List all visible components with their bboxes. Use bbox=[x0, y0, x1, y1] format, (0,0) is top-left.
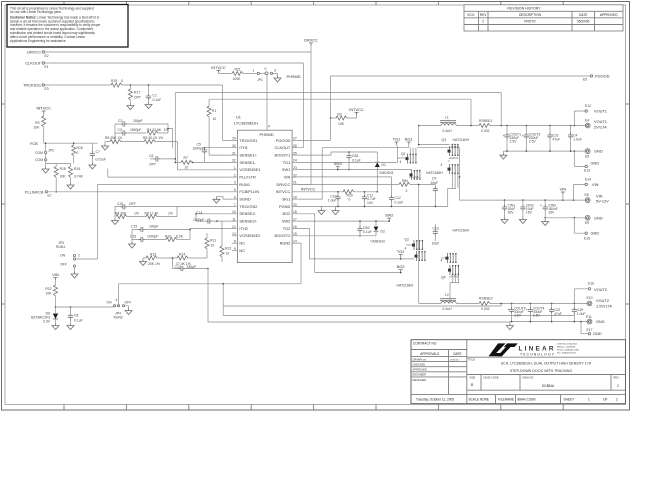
net flag INTVCC left bbox=[36, 106, 51, 114]
transistor Q1 bbox=[397, 148, 420, 180]
terminal E14 VIN bbox=[574, 178, 599, 200]
svg-text:19: 19 bbox=[293, 195, 297, 199]
svg-text:21: 21 bbox=[293, 181, 297, 185]
svg-text:SENSE2+: SENSE2+ bbox=[239, 219, 257, 224]
svg-text:6: 6 bbox=[234, 195, 236, 199]
resistor R5 bbox=[105, 136, 144, 143]
U1 pin 15 BOOST2 bbox=[292, 235, 298, 237]
svg-text:1: 1 bbox=[234, 166, 236, 170]
svg-text:CAGE CODE: CAGE CODE bbox=[483, 375, 499, 379]
svg-text:E10: E10 bbox=[587, 296, 593, 300]
jumper JP1 bbox=[253, 67, 278, 82]
svg-text:0: 0 bbox=[349, 198, 351, 202]
wire VOUT1 rail bbox=[419, 125, 586, 127]
svg-text:10: 10 bbox=[226, 252, 230, 256]
U1 pin 31 SENSE1+ bbox=[232, 154, 238, 156]
ground at R5 left bbox=[102, 142, 109, 150]
resistor R15 bbox=[111, 79, 123, 87]
svg-text:1%: 1% bbox=[168, 212, 173, 216]
svg-text:TG2: TG2 bbox=[397, 249, 405, 254]
ground at JP1 bbox=[274, 76, 281, 82]
terminal E2 DRVCC bbox=[27, 50, 49, 59]
inductor L2 bbox=[440, 293, 456, 311]
svg-text:C2: C2 bbox=[118, 119, 122, 123]
pin 4 stub top bbox=[266, 75, 268, 130]
svg-text:Q4: Q4 bbox=[441, 276, 446, 280]
ground below C7 bbox=[89, 163, 96, 169]
svg-text:C9: C9 bbox=[432, 177, 436, 181]
svg-text:2: 2 bbox=[617, 384, 619, 388]
svg-text:ITH1: ITH1 bbox=[239, 145, 247, 150]
svg-text:DC884A: DC884A bbox=[542, 384, 555, 388]
svg-text:12: 12 bbox=[232, 225, 236, 229]
svg-text:01/31/05: 01/31/05 bbox=[450, 359, 459, 361]
svg-text:CHECKED: CHECKED bbox=[413, 362, 426, 366]
wire SW node ch2 bbox=[418, 184, 420, 303]
svg-text:0.4uH: 0.4uH bbox=[443, 129, 453, 133]
svg-text:E9: E9 bbox=[585, 221, 589, 225]
svg-text:CLKOUT: CLKOUT bbox=[275, 145, 291, 150]
svg-text:OFF: OFF bbox=[60, 263, 67, 267]
svg-text:R19: R19 bbox=[74, 167, 80, 171]
svg-text:PHSMD: PHSMD bbox=[260, 132, 274, 137]
svg-text:REV: REV bbox=[480, 13, 487, 17]
svg-text:47uF: 47uF bbox=[553, 138, 561, 142]
svg-text:E3: E3 bbox=[45, 87, 49, 91]
svg-text:Q1: Q1 bbox=[401, 152, 406, 156]
svg-text:VIN: VIN bbox=[560, 187, 567, 192]
resistor R11 bbox=[205, 233, 216, 258]
svg-text:3: 3 bbox=[274, 69, 276, 73]
U1 pin INTVCC bbox=[292, 191, 298, 193]
svg-text:R16: R16 bbox=[77, 146, 83, 150]
svg-text:SHEET: SHEET bbox=[564, 398, 575, 402]
wire DRVCC net bbox=[45, 44, 312, 52]
svg-text:JP2: JP2 bbox=[48, 149, 54, 153]
svg-text:R8 20K: R8 20K bbox=[115, 212, 127, 216]
svg-text:RUN1: RUN1 bbox=[239, 182, 250, 187]
svg-text:150pF: 150pF bbox=[133, 119, 143, 123]
resistor R18 bbox=[54, 167, 66, 193]
svg-text:+: + bbox=[540, 203, 542, 207]
net flag SW2 bbox=[385, 213, 393, 222]
svg-text:+: + bbox=[507, 308, 509, 312]
wire VIN gnd rail bbox=[545, 217, 586, 219]
svg-text:20: 20 bbox=[293, 203, 297, 207]
wire VOUT2 rail bbox=[419, 302, 588, 304]
svg-text:1: 1 bbox=[253, 69, 255, 73]
svg-text:R17: R17 bbox=[134, 91, 140, 95]
svg-text:C15: C15 bbox=[131, 225, 137, 229]
svg-text:0.1uF: 0.1uF bbox=[153, 98, 162, 102]
svg-text:SENSE1-: SENSE1- bbox=[239, 160, 256, 165]
wire comp network verticals bbox=[115, 124, 232, 170]
svg-text:DRVCC: DRVCC bbox=[304, 38, 318, 43]
resistor RSNSE1 bbox=[479, 119, 493, 133]
svg-text:05/20/05: 05/20/05 bbox=[577, 19, 590, 23]
svg-text:INTVCC: INTVCC bbox=[276, 189, 291, 194]
svg-text:10: 10 bbox=[185, 166, 189, 170]
svg-text:SW2: SW2 bbox=[282, 219, 290, 224]
ground SGND bbox=[213, 197, 220, 203]
U1 pin 23 SW1 bbox=[292, 169, 298, 171]
svg-text:GND: GND bbox=[596, 319, 605, 324]
title block bbox=[411, 340, 626, 404]
svg-text:INTVCC: INTVCC bbox=[349, 107, 364, 112]
capacitor COUT3 bbox=[522, 126, 541, 152]
svg-text:ON: ON bbox=[107, 301, 113, 305]
svg-text:1000pF: 1000pF bbox=[147, 235, 159, 239]
svg-text:3.74K: 3.74K bbox=[74, 175, 84, 179]
U1 pin 32 SENSE1- bbox=[232, 161, 238, 163]
wire FCB node bbox=[44, 143, 98, 152]
jumper JP2 bbox=[35, 149, 54, 168]
U1 pin 25 BOOST1 bbox=[292, 154, 298, 156]
svg-text:TG2: TG2 bbox=[283, 226, 291, 231]
svg-text:GND: GND bbox=[594, 149, 603, 154]
svg-text:0.002: 0.002 bbox=[481, 129, 490, 133]
svg-text:+: + bbox=[526, 308, 528, 312]
svg-text:100K: 100K bbox=[233, 77, 242, 81]
svg-text:VOUT1: VOUT1 bbox=[594, 119, 607, 124]
svg-text:JP1: JP1 bbox=[257, 78, 263, 82]
capacitor C1 bbox=[146, 84, 161, 102]
svg-text:1500pF: 1500pF bbox=[130, 128, 142, 132]
svg-text:DATE: DATE bbox=[453, 352, 461, 356]
svg-text:16V: 16V bbox=[526, 211, 533, 215]
U1 pin 9 NC bbox=[232, 250, 238, 252]
svg-text:0.1uF: 0.1uF bbox=[352, 159, 361, 163]
svg-text:Phone: (408)432-1900: Phone: (408)432-1900 bbox=[557, 350, 580, 352]
wire PLLINFCB to pin5 bbox=[48, 191, 232, 193]
wire RUN2 node bbox=[56, 306, 114, 307]
svg-text:TECHNOLOGY: TECHNOLOGY bbox=[520, 352, 555, 356]
svg-text:E7: E7 bbox=[48, 194, 52, 198]
ground below R17 bbox=[127, 104, 134, 110]
svg-text:Applications Engineering for a: Applications Engineering for assistance. bbox=[10, 39, 67, 43]
wire BOOST1 net bbox=[298, 152, 378, 155]
resistor R22 bbox=[45, 280, 57, 307]
wire VOUT1 gnd rail bbox=[503, 150, 586, 152]
svg-text:FILENAME: FILENAME bbox=[498, 398, 514, 402]
svg-text:R1: R1 bbox=[212, 109, 216, 113]
wire INTVCC row bbox=[298, 191, 343, 193]
svg-text:Tuesday, October 11, 2005: Tuesday, October 11, 2005 bbox=[416, 398, 454, 402]
wire CLKOUT net bbox=[45, 63, 304, 148]
svg-text:L2: L2 bbox=[445, 293, 449, 297]
capacitor C17 bbox=[173, 258, 209, 271]
resistor R14 bbox=[176, 253, 207, 266]
svg-text:1000pF: 1000pF bbox=[193, 218, 205, 222]
wire PGND rail bbox=[298, 205, 448, 207]
diode D2 CMDSH3 bbox=[371, 220, 385, 243]
svg-text:10uF: 10uF bbox=[432, 242, 440, 246]
wire SW2 net bbox=[298, 220, 390, 222]
svg-text:47uF: 47uF bbox=[554, 312, 562, 316]
resistor R10 bbox=[165, 235, 190, 242]
svg-text:2: 2 bbox=[616, 398, 618, 402]
svg-text:B: B bbox=[471, 383, 473, 387]
svg-text:E2: E2 bbox=[45, 54, 49, 58]
svg-text:+S+P+S: +S+P+S bbox=[449, 156, 459, 160]
svg-text:VIN: VIN bbox=[596, 193, 603, 198]
net flag VIN rail bbox=[560, 187, 567, 201]
capacitor C13 bbox=[432, 224, 440, 246]
terminal E15 GND bbox=[574, 218, 599, 241]
svg-text:+: + bbox=[503, 134, 505, 138]
net flag BG2 bbox=[397, 264, 405, 274]
svg-text:0.01uF: 0.01uF bbox=[96, 158, 107, 162]
capacitor C4 bbox=[568, 126, 582, 152]
svg-text:HAT2168H: HAT2168H bbox=[426, 171, 443, 175]
svg-text:SIZE: SIZE bbox=[470, 375, 476, 379]
svg-text:RUN1: RUN1 bbox=[56, 245, 65, 249]
capacitor C14 bbox=[193, 211, 232, 224]
ground CIN2 bbox=[519, 218, 526, 224]
ground CIN3 bbox=[542, 218, 549, 226]
ground VOUT2 rail bbox=[506, 322, 513, 330]
U1 pin 1 VOSENSE1 bbox=[232, 169, 238, 171]
wire TG2 net bbox=[298, 228, 414, 259]
wire SW node ch1 bbox=[419, 126, 450, 145]
net flag BG1 bbox=[405, 137, 413, 148]
svg-text:2.5V: 2.5V bbox=[529, 140, 537, 144]
ground below JP3 bbox=[71, 272, 78, 278]
resistor R12 bbox=[220, 221, 231, 262]
ground PGND arrow 2 bbox=[332, 206, 339, 214]
ground below JP2 bbox=[42, 167, 49, 173]
svg-text:BG1: BG1 bbox=[405, 137, 413, 142]
svg-text:STEP-DOWN DC/DC WITH TRACKING: STEP-DOWN DC/DC WITH TRACKING bbox=[510, 369, 573, 373]
svg-text:PROTO: PROTO bbox=[524, 19, 536, 23]
svg-text:16V: 16V bbox=[548, 211, 555, 215]
U1 pin 11 SENSE2+ bbox=[232, 220, 238, 222]
svg-text:26: 26 bbox=[293, 144, 297, 148]
wire sense1 kelvin risers bbox=[175, 93, 209, 163]
net flag DRVCC top bbox=[304, 38, 318, 46]
svg-text:10K: 10K bbox=[60, 175, 67, 179]
ground below R8 left bbox=[112, 217, 119, 225]
svg-text:5V-12V: 5V-12V bbox=[596, 199, 609, 204]
U1 pin 20 PGND bbox=[292, 206, 298, 208]
svg-text:ON: ON bbox=[60, 254, 66, 258]
svg-text:C1: C1 bbox=[153, 94, 157, 98]
svg-text:0: 0 bbox=[121, 79, 123, 83]
svg-text:R15: R15 bbox=[111, 79, 117, 83]
U1 pin 14 RUN2 bbox=[292, 242, 298, 244]
svg-text:APPROVED: APPROVED bbox=[600, 13, 618, 17]
svg-text:HAT2160H: HAT2160H bbox=[453, 138, 470, 142]
svg-text:PLLFLTR: PLLFLTR bbox=[239, 175, 256, 180]
svg-text:COM: COM bbox=[35, 158, 43, 162]
svg-text:C3: C3 bbox=[118, 128, 122, 132]
inductor L1 bbox=[440, 115, 456, 133]
terminal E16 VOUT2 bbox=[574, 282, 607, 304]
wire RUN1 from JP3 bbox=[76, 184, 232, 259]
U1 pin 7 TRCKSS2 bbox=[232, 206, 238, 208]
svg-text:0.1uF: 0.1uF bbox=[74, 319, 83, 323]
svg-text:RSNSE1: RSNSE1 bbox=[479, 119, 493, 123]
svg-text:PLLINFCB: PLLINFCB bbox=[25, 189, 44, 194]
resistor R17 bbox=[128, 84, 141, 103]
svg-text:VOSENSE2: VOSENSE2 bbox=[239, 233, 260, 238]
ground below R19 bbox=[67, 183, 74, 189]
revision history table bbox=[464, 5, 623, 31]
terminal E11 GND bbox=[586, 315, 605, 324]
capacitor C10 bbox=[328, 191, 341, 206]
svg-text:VOUT1: VOUT1 bbox=[594, 108, 607, 113]
terminal E6 GND bbox=[585, 149, 603, 159]
svg-text:24: 24 bbox=[293, 159, 297, 163]
svg-text:OF: OF bbox=[603, 398, 607, 402]
svg-text:16: 16 bbox=[293, 225, 297, 229]
U1 pin 22 VIN bbox=[292, 176, 298, 178]
svg-text:PGOOD: PGOOD bbox=[276, 138, 291, 143]
resistor R7 bbox=[175, 156, 232, 170]
capacitor CIN3 bbox=[540, 200, 558, 219]
svg-text:10uF: 10uF bbox=[431, 181, 439, 185]
svg-text:Milpitas, CA 95035: Milpitas, CA 95035 bbox=[557, 346, 576, 349]
op IC U1 LTC3828EUH bbox=[232, 75, 298, 263]
capacitor CIN2 bbox=[520, 200, 533, 217]
svg-text:10V: 10V bbox=[367, 201, 374, 205]
svg-text:2: 2 bbox=[482, 19, 484, 23]
svg-text:10: 10 bbox=[232, 210, 236, 214]
U1 pin 5 FCB/PLLIN bbox=[232, 191, 238, 193]
resistor R9B bbox=[145, 206, 178, 218]
svg-text:0: 0 bbox=[77, 151, 79, 155]
svg-text:11: 11 bbox=[232, 217, 236, 221]
wire SGND hook bbox=[217, 196, 232, 199]
svg-text:REV: REV bbox=[614, 375, 620, 379]
svg-text:E17: E17 bbox=[587, 328, 593, 332]
svg-text:C8: C8 bbox=[74, 314, 78, 318]
svg-text:2V/17A: 2V/17A bbox=[594, 125, 607, 130]
svg-text:DATE: DATE bbox=[579, 13, 587, 17]
svg-text:TG1: TG1 bbox=[283, 160, 291, 165]
resistor RIN bbox=[399, 179, 435, 193]
capacitor CB1 bbox=[346, 151, 360, 170]
svg-text:LINEAR: LINEAR bbox=[519, 345, 554, 352]
wire DRVCC row bbox=[298, 183, 399, 185]
svg-text:PHSMD: PHSMD bbox=[287, 74, 301, 79]
svg-text:SW2: SW2 bbox=[385, 213, 393, 218]
net flag INTVCC at JP1 bbox=[211, 65, 232, 73]
wire PGOOD net bbox=[298, 76, 591, 140]
resistor R2 bbox=[331, 112, 357, 126]
terminal E5 PGOOD bbox=[583, 74, 610, 82]
svg-text:C20: C20 bbox=[117, 202, 123, 206]
svg-text:23: 23 bbox=[293, 166, 297, 170]
terminal E4 VOUT1 bbox=[585, 118, 607, 129]
U1 pin 29 TRCKSS1 bbox=[232, 139, 238, 141]
terminal E12 VOUT1 bbox=[574, 104, 607, 126]
svg-text:R10: R10 bbox=[165, 235, 171, 239]
svg-text:10K: 10K bbox=[33, 126, 40, 130]
U1 pin 26 CLKOUT bbox=[292, 147, 298, 149]
svg-text:APPROVALS: APPROVALS bbox=[420, 352, 439, 356]
svg-text:2.5V: 2.5V bbox=[514, 314, 522, 318]
capacitor C3 bbox=[115, 128, 146, 135]
svg-text:E6: E6 bbox=[585, 155, 589, 159]
svg-text:E16: E16 bbox=[588, 282, 594, 286]
svg-text:14: 14 bbox=[293, 240, 297, 244]
svg-text:VOSENSE1: VOSENSE1 bbox=[239, 167, 260, 172]
svg-text:R22: R22 bbox=[45, 287, 51, 291]
svg-text:10: 10 bbox=[213, 117, 217, 121]
svg-text:for use with Linear Technology: for use with Linear Technology parts. bbox=[10, 10, 62, 14]
svg-text:7: 7 bbox=[234, 203, 236, 207]
svg-text:R14: R14 bbox=[179, 253, 185, 257]
svg-text:0.1uF: 0.1uF bbox=[395, 200, 404, 204]
svg-text:18: 18 bbox=[293, 210, 297, 214]
svg-text:32: 32 bbox=[232, 159, 236, 163]
svg-text:SENSE2-: SENSE2- bbox=[239, 211, 256, 216]
resistor R19 bbox=[69, 167, 84, 184]
U1 pin 12 ITH2 bbox=[232, 228, 238, 230]
svg-text:Fax: (408)434-0507: Fax: (408)434-0507 bbox=[557, 353, 577, 355]
svg-text:R13: R13 bbox=[150, 253, 156, 257]
svg-text:R18: R18 bbox=[60, 167, 66, 171]
svg-text:SCH, LTC3828EUH, DUAL OUTPUT H: SCH, LTC3828EUH, DUAL OUTPUT HIGH DENSIT… bbox=[501, 362, 592, 366]
svg-text:U1: U1 bbox=[236, 115, 241, 120]
ground below C16 bbox=[129, 242, 136, 248]
svg-text:E13: E13 bbox=[584, 169, 590, 173]
svg-text:E14: E14 bbox=[585, 178, 591, 182]
svg-text:LTC3828EUH: LTC3828EUH bbox=[234, 121, 258, 126]
svg-text:3.3V: 3.3V bbox=[43, 320, 51, 324]
capacitor C19 bbox=[572, 303, 586, 321]
svg-text:2.5V: 2.5V bbox=[533, 314, 541, 318]
svg-text:27: 27 bbox=[293, 137, 297, 141]
LT logo bbox=[489, 343, 518, 356]
capacitor CB2 bbox=[357, 220, 371, 236]
resistor RSNSE2 bbox=[479, 297, 493, 311]
U1 pin 21 DRVCC bbox=[292, 183, 298, 185]
svg-text:C6: C6 bbox=[149, 154, 153, 158]
capacitor C11 bbox=[362, 191, 376, 206]
capacitor COUT1 bbox=[503, 126, 522, 152]
net flag VIN left bbox=[52, 272, 59, 280]
svg-text:CLKOUT: CLKOUT bbox=[25, 61, 41, 66]
svg-text:TRCKSS2: TRCKSS2 bbox=[239, 204, 257, 209]
svg-text:VIN: VIN bbox=[52, 272, 59, 277]
svg-text:TRCKSS1: TRCKSS1 bbox=[239, 138, 257, 143]
wire VIN row bbox=[298, 176, 392, 178]
svg-text:330pF: 330pF bbox=[187, 265, 197, 269]
capacitor C20 bbox=[115, 202, 232, 209]
svg-text:OPT: OPT bbox=[134, 96, 141, 100]
wire TG1 net bbox=[298, 146, 398, 163]
svg-text:2: 2 bbox=[78, 254, 80, 258]
svg-text:2: 2 bbox=[406, 189, 408, 193]
svg-text:1.0uF: 1.0uF bbox=[577, 312, 586, 316]
svg-text:4: 4 bbox=[405, 247, 407, 251]
U1 pin 30 ITH1 bbox=[232, 147, 238, 149]
svg-text:GND: GND bbox=[594, 215, 603, 220]
svg-text:CMDSH3: CMDSH3 bbox=[379, 171, 393, 175]
svg-text:BOOST1: BOOST1 bbox=[275, 153, 291, 158]
svg-text:R5 20K 1%: R5 20K 1% bbox=[105, 136, 122, 140]
net flag INTVCC at R2 bbox=[349, 107, 364, 115]
svg-text:1630 McCarthy Blvd.: 1630 McCarthy Blvd. bbox=[557, 343, 578, 346]
capacitor C9 bbox=[426, 171, 443, 206]
terminal E1 CLKOUT bbox=[25, 61, 49, 70]
svg-text:BG1: BG1 bbox=[283, 197, 291, 202]
svg-text:C7: C7 bbox=[96, 150, 100, 154]
svg-text:SW1: SW1 bbox=[282, 167, 290, 172]
terminal E7 PLLINFCB bbox=[25, 189, 52, 198]
